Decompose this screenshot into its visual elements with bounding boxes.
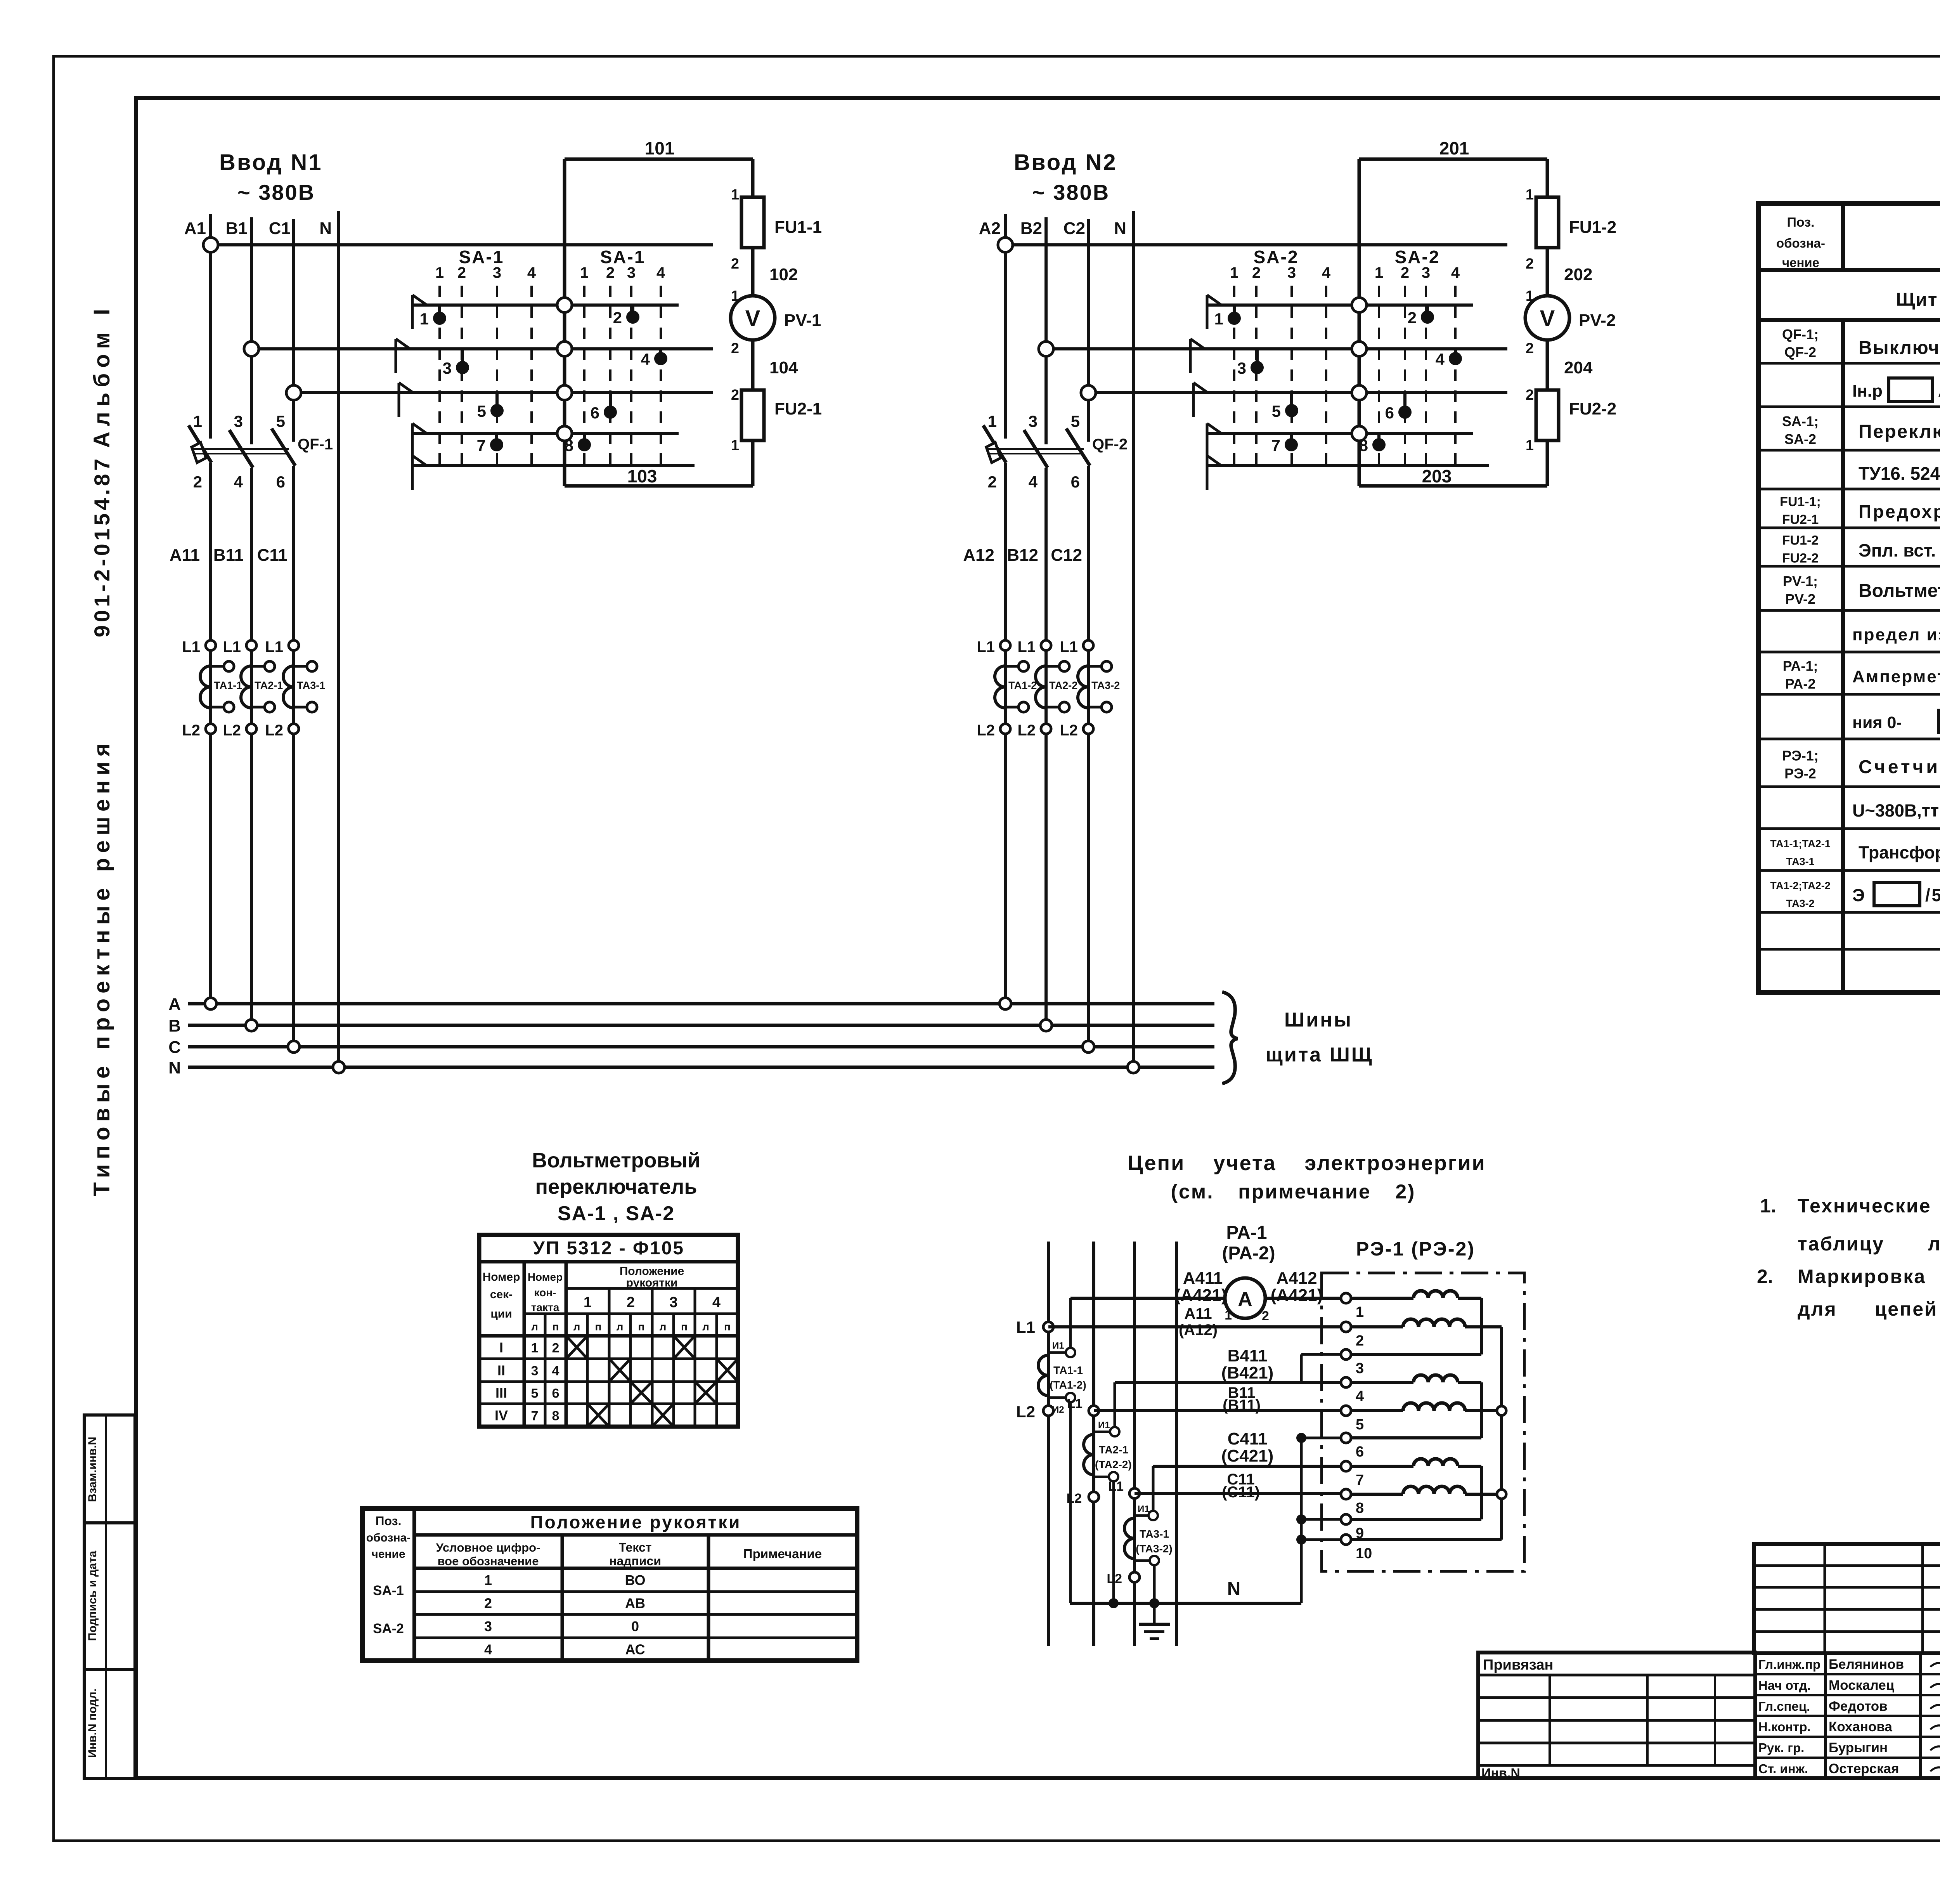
svg-text:4: 4 <box>1029 473 1038 491</box>
svg-text:4: 4 <box>1451 264 1460 281</box>
svg-text:Выключатель: Выключатель <box>1859 338 1940 358</box>
svg-text:Рук. гр.: Рук. гр. <box>1758 1741 1804 1755</box>
svg-text:2: 2 <box>552 1341 559 1356</box>
svg-text:Цепи учета электроэнергии: Цепи учета электроэнергии <box>1128 1151 1486 1175</box>
svg-text:L1: L1 <box>223 638 241 655</box>
svg-text:N: N <box>1114 219 1126 238</box>
svg-text:В411: В411 <box>1228 1346 1268 1365</box>
svg-text:3: 3 <box>1029 412 1038 430</box>
svg-text:И1: И1 <box>1098 1420 1110 1431</box>
svg-text:Положение: Положение <box>620 1265 684 1278</box>
svg-text:0: 0 <box>631 1618 639 1634</box>
svg-text:L2: L2 <box>1107 1571 1122 1586</box>
svg-text:щита ШЩ: щита ШЩ <box>1266 1044 1374 1066</box>
svg-text:сек-: сек- <box>490 1288 513 1301</box>
svg-text:ТА1-2: ТА1-2 <box>1008 680 1037 691</box>
svg-text:В: В <box>168 1016 181 1035</box>
svg-text:(ТА2-2): (ТА2-2) <box>1095 1458 1132 1470</box>
svg-text:FU2-1: FU2-1 <box>1782 512 1819 527</box>
svg-text:N: N <box>168 1058 181 1077</box>
svg-text:Счетчик СА4У-И672 м, кл. 2,: Счетчик СА4У-И672 м, кл. 2, <box>1859 757 1940 777</box>
svg-text:А11: А11 <box>170 546 200 565</box>
svg-text:таблицу лист ЭМ-2.: таблицу лист ЭМ-2. <box>1798 1233 1940 1255</box>
svg-text:202: 202 <box>1564 265 1592 284</box>
svg-text:Ст. инж.: Ст. инж. <box>1758 1762 1808 1776</box>
svg-text:В1: В1 <box>226 219 248 238</box>
svg-text:L1: L1 <box>1067 1396 1083 1411</box>
svg-text:предел измерения 0-500В;ТУ25: предел измерения 0-500В;ТУ25.04.3720-79 <box>1852 625 1940 644</box>
svg-text:С2: С2 <box>1064 219 1085 238</box>
svg-text:п: п <box>553 1321 559 1333</box>
svg-text:L2: L2 <box>1060 722 1078 739</box>
svg-text:3: 3 <box>484 1618 492 1634</box>
svg-text:II: II <box>497 1363 505 1379</box>
svg-text:3: 3 <box>1237 359 1246 377</box>
svg-text:2: 2 <box>1526 387 1534 403</box>
svg-text:6: 6 <box>1385 404 1394 422</box>
svg-text:SA-2: SA-2 <box>373 1621 404 1636</box>
svg-text:рукоятки: рукоятки <box>626 1276 678 1289</box>
svg-text:Трансформатор тока ТК-20-0.5: Трансформатор тока ТК-20-0.5 У3; <box>1859 843 1940 862</box>
svg-text:5: 5 <box>477 402 486 420</box>
svg-text:PV-1;: PV-1; <box>1783 573 1818 589</box>
svg-text:1: 1 <box>731 288 739 304</box>
svg-text:III: III <box>495 1385 507 1401</box>
svg-text:Инв.N подл.: Инв.N подл. <box>86 1689 99 1758</box>
svg-text:PV-2: PV-2 <box>1579 311 1616 330</box>
svg-text:4: 4 <box>1322 264 1331 281</box>
svg-text:Гл.инж.пр: Гл.инж.пр <box>1758 1657 1820 1672</box>
svg-text:Номер: Номер <box>528 1271 563 1283</box>
svg-text:4: 4 <box>484 1642 492 1658</box>
svg-text:А, Iуст.: А, Iуст. <box>1938 381 1940 401</box>
svg-text:1: 1 <box>1214 310 1223 328</box>
svg-text:В2: В2 <box>1020 219 1042 238</box>
svg-text:(ТА3-2): (ТА3-2) <box>1136 1543 1173 1555</box>
svg-text:Поз.: Поз. <box>376 1514 402 1528</box>
svg-text:SA-1: SA-1 <box>600 247 646 267</box>
svg-text:6: 6 <box>1356 1444 1364 1460</box>
svg-text:1.: 1. <box>1760 1195 1776 1217</box>
svg-text:Технические данные электрообор: Технические данные электрооборудования с… <box>1798 1195 1940 1217</box>
svg-text:~ 380В: ~ 380В <box>1032 180 1110 205</box>
svg-text:л: л <box>573 1321 580 1333</box>
svg-text:5: 5 <box>1356 1417 1364 1433</box>
svg-text:Амперметр Э 365 кл.1,5; предел: Амперметр Э 365 кл.1,5; предел измере- <box>1852 667 1940 686</box>
svg-text:Инв.N: Инв.N <box>1481 1766 1520 1781</box>
svg-text:L1: L1 <box>1017 638 1036 655</box>
svg-text:L2: L2 <box>265 722 283 739</box>
svg-text:ции: ции <box>490 1307 512 1320</box>
svg-text:L2: L2 <box>182 722 200 739</box>
svg-text:QF-2: QF-2 <box>1092 436 1128 453</box>
svg-text:FU2-1: FU2-1 <box>774 399 822 418</box>
svg-text:С1: С1 <box>269 219 291 238</box>
svg-text:Вольтметровый: Вольтметровый <box>532 1149 700 1172</box>
svg-text:7: 7 <box>1271 436 1280 454</box>
svg-text:АВ: АВ <box>625 1595 645 1611</box>
svg-text:А1: А1 <box>184 219 206 238</box>
svg-text:надписи: надписи <box>609 1554 661 1568</box>
svg-text:N: N <box>1227 1579 1241 1599</box>
svg-text:л: л <box>702 1321 709 1333</box>
svg-text:~ 380В: ~ 380В <box>237 180 315 205</box>
svg-text:4: 4 <box>1356 1388 1364 1405</box>
svg-text:В11: В11 <box>213 546 244 565</box>
svg-text:ВО: ВО <box>625 1572 645 1588</box>
svg-text:901-2-0154.87: 901-2-0154.87 <box>90 456 114 637</box>
svg-text:С: С <box>168 1038 181 1057</box>
svg-text:Н.контр.: Н.контр. <box>1758 1720 1811 1734</box>
svg-text:(С421): (С421) <box>1221 1446 1274 1465</box>
svg-text:104: 104 <box>769 358 798 377</box>
svg-text:Белянинов: Белянинов <box>1829 1657 1904 1672</box>
svg-text:4: 4 <box>552 1364 559 1379</box>
svg-text:п: п <box>595 1321 602 1333</box>
svg-text:1: 1 <box>1230 264 1238 281</box>
svg-text:А11: А11 <box>1184 1305 1212 1322</box>
svg-text:(В421): (В421) <box>1221 1363 1274 1382</box>
svg-text:5: 5 <box>276 412 285 430</box>
svg-text:А: А <box>168 995 181 1014</box>
svg-text:8: 8 <box>565 436 573 454</box>
svg-text:7: 7 <box>1356 1472 1364 1488</box>
svg-text:Маркировка аппаратов в скобках: Маркировка аппаратов в скобках приведена <box>1798 1266 1940 1287</box>
svg-text:Переключатель УП 5312 - Ф 105: Переключатель УП 5312 - Ф 105У3, <box>1859 421 1940 442</box>
svg-text:1: 1 <box>435 264 444 281</box>
svg-text:РЭ-1;: РЭ-1; <box>1782 748 1819 764</box>
svg-text:4: 4 <box>1436 350 1445 368</box>
svg-text:И1: И1 <box>1052 1340 1064 1351</box>
svg-text:SA-2: SA-2 <box>1784 431 1816 447</box>
svg-text:С12: С12 <box>1051 546 1082 565</box>
svg-text:л: л <box>660 1321 667 1333</box>
svg-text:РЭ-2: РЭ-2 <box>1784 766 1816 782</box>
svg-text:ТА3-1: ТА3-1 <box>1786 856 1814 867</box>
svg-text:1: 1 <box>1526 437 1534 454</box>
svg-text:2.: 2. <box>1757 1266 1773 1287</box>
svg-text:Примечание: Примечание <box>743 1547 822 1561</box>
svg-text:Типовые проектные решения: Типовые проектные решения <box>89 738 114 1196</box>
svg-text:SA-1;: SA-1; <box>1782 413 1819 429</box>
svg-text:7: 7 <box>477 436 486 454</box>
svg-text:переключатель: переключатель <box>535 1175 697 1198</box>
svg-text:10: 10 <box>1356 1545 1372 1562</box>
svg-text:(РА-2): (РА-2) <box>1222 1243 1275 1264</box>
svg-text:Эпл. вст. 16А, ТУ16.522.112 -: Эпл. вст. 16А, ТУ16.522.112 - 74 <box>1859 540 1940 560</box>
svg-text:обозна-: обозна- <box>1776 236 1825 250</box>
svg-text:1: 1 <box>1526 288 1534 304</box>
svg-text:2: 2 <box>627 1294 635 1311</box>
svg-text:АС: АС <box>625 1642 645 1658</box>
svg-text:8: 8 <box>1359 436 1368 454</box>
svg-text:7: 7 <box>531 1409 539 1424</box>
svg-text:обозна-: обозна- <box>366 1531 411 1544</box>
svg-text:1: 1 <box>731 437 739 454</box>
svg-text:QF-1: QF-1 <box>298 436 333 453</box>
svg-text:вое обозначение: вое обозначение <box>438 1554 539 1568</box>
svg-text:2: 2 <box>1408 309 1417 327</box>
svg-text:И2: И2 <box>1052 1405 1064 1415</box>
svg-text:4: 4 <box>527 264 536 281</box>
svg-text:(см. примечание 2): (см. примечание 2) <box>1171 1181 1416 1203</box>
svg-text:204: 204 <box>1564 358 1593 377</box>
svg-text:(ТА1-2): (ТА1-2) <box>1050 1379 1086 1391</box>
svg-text:РА-2: РА-2 <box>1785 676 1816 692</box>
svg-text:6: 6 <box>552 1386 559 1401</box>
svg-text:Положение рукоятки: Положение рукоятки <box>530 1512 741 1532</box>
svg-text:Привязан: Привязан <box>1483 1657 1553 1673</box>
svg-text:ТА1-1: ТА1-1 <box>214 680 242 691</box>
svg-text:L2: L2 <box>1066 1491 1082 1506</box>
svg-text:1: 1 <box>193 412 202 430</box>
svg-text:L2: L2 <box>223 722 241 739</box>
svg-text:ТА3-2: ТА3-2 <box>1786 898 1814 909</box>
svg-text:С11: С11 <box>257 546 288 565</box>
svg-text:С411: С411 <box>1228 1429 1268 1448</box>
svg-text:И1: И1 <box>1138 1504 1150 1514</box>
svg-text:3: 3 <box>234 412 243 430</box>
svg-text:3: 3 <box>669 1294 677 1311</box>
svg-text:FU1-1;: FU1-1; <box>1780 494 1821 509</box>
svg-text:6: 6 <box>1071 473 1080 491</box>
svg-text:/5А; ТУ16.517.442-80.: /5А; ТУ16.517.442-80. <box>1925 885 1940 905</box>
svg-text:L2: L2 <box>977 722 995 739</box>
svg-text:2: 2 <box>988 473 997 491</box>
svg-text:1: 1 <box>531 1341 539 1356</box>
svg-text:Взам.инв.N: Взам.инв.N <box>86 1437 99 1502</box>
svg-text:Нач отд.: Нач отд. <box>1758 1678 1811 1692</box>
svg-text:102: 102 <box>769 265 798 284</box>
svg-text:п: п <box>681 1321 688 1333</box>
svg-text:1: 1 <box>1526 187 1534 203</box>
svg-text:2: 2 <box>484 1595 492 1611</box>
svg-text:3: 3 <box>443 359 452 377</box>
svg-text:ТА1-2;ТА2-2: ТА1-2;ТА2-2 <box>1770 880 1831 891</box>
svg-text:Остерская: Остерская <box>1829 1761 1899 1776</box>
svg-text:2: 2 <box>193 473 202 491</box>
svg-text:FU1-2: FU1-2 <box>1569 218 1616 237</box>
svg-text:L1: L1 <box>1108 1479 1124 1494</box>
svg-text:1: 1 <box>1356 1304 1364 1320</box>
svg-text:ТУ16. 524. 074 - 75: ТУ16. 524. 074 - 75 <box>1859 463 1940 484</box>
svg-text:103: 103 <box>627 466 657 486</box>
svg-text:ТА3-1: ТА3-1 <box>1140 1528 1169 1540</box>
svg-text:Бурыгин: Бурыгин <box>1829 1740 1888 1755</box>
svg-text:2: 2 <box>1356 1333 1364 1349</box>
svg-text:такта: такта <box>531 1301 559 1313</box>
svg-text:QF-1;: QF-1; <box>1782 326 1819 342</box>
svg-text:5: 5 <box>1272 402 1281 420</box>
svg-text:L1: L1 <box>265 638 283 655</box>
svg-text:п: п <box>724 1321 731 1333</box>
svg-text:1: 1 <box>584 1294 592 1311</box>
svg-text:2: 2 <box>613 309 622 327</box>
svg-text:101: 101 <box>645 138 675 158</box>
svg-text:(В11): (В11) <box>1223 1397 1261 1414</box>
svg-text:3: 3 <box>531 1364 539 1379</box>
svg-text:SA-2: SA-2 <box>1395 247 1440 267</box>
svg-text:FU1-2: FU1-2 <box>1782 533 1819 548</box>
svg-text:1: 1 <box>1225 1308 1232 1323</box>
svg-text:ТА2-2: ТА2-2 <box>1049 680 1077 691</box>
svg-text:Альбом I: Альбом I <box>89 303 114 448</box>
svg-text:PV-1: PV-1 <box>784 311 821 330</box>
svg-text:Предохранитель ПРС - 25 У3 -: Предохранитель ПРС - 25 У3 - П, <box>1859 501 1940 522</box>
svg-text:4: 4 <box>712 1294 721 1311</box>
svg-text:Iн.р: Iн.р <box>1852 381 1883 401</box>
svg-text:SA-1: SA-1 <box>459 247 504 267</box>
svg-text:8: 8 <box>552 1409 559 1424</box>
svg-text:Э: Э <box>1852 885 1865 905</box>
svg-text:1: 1 <box>988 412 997 430</box>
svg-text:4: 4 <box>656 264 665 281</box>
svg-text:Условное цифро-: Условное цифро- <box>436 1541 540 1554</box>
svg-text:А: А <box>1238 1288 1252 1311</box>
svg-text:203: 203 <box>1422 466 1452 486</box>
svg-text:(С11): (С11) <box>1222 1484 1260 1501</box>
svg-text:Номер: Номер <box>483 1271 520 1283</box>
svg-text:2: 2 <box>731 387 739 403</box>
svg-text:ния 0-: ния 0- <box>1852 713 1902 732</box>
svg-text:Ввод N2: Ввод N2 <box>1014 150 1117 175</box>
svg-text:U~380В,тт: U~380В,тт <box>1852 801 1939 820</box>
svg-text:SA-2: SA-2 <box>1254 247 1299 267</box>
svg-text:IV: IV <box>495 1408 508 1424</box>
svg-text:Шины: Шины <box>1284 1009 1353 1031</box>
svg-text:2: 2 <box>1526 340 1534 357</box>
svg-text:Коханова: Коханова <box>1829 1719 1892 1734</box>
svg-text:8: 8 <box>1356 1500 1364 1516</box>
svg-text:1: 1 <box>484 1572 492 1588</box>
svg-text:чение: чение <box>371 1548 405 1561</box>
svg-text:I: I <box>499 1340 503 1356</box>
svg-text:РА-1;: РА-1; <box>1783 658 1818 674</box>
svg-text:(А421): (А421) <box>1175 1286 1227 1305</box>
svg-text:FU2-2: FU2-2 <box>1782 551 1819 566</box>
svg-text:V: V <box>1540 306 1555 331</box>
svg-text:1: 1 <box>731 187 739 203</box>
svg-text:А412: А412 <box>1276 1269 1317 1288</box>
svg-text:Подпись и дата: Подпись и дата <box>86 1550 99 1641</box>
svg-text:PV-2: PV-2 <box>1785 591 1815 607</box>
svg-text:L1: L1 <box>977 638 995 655</box>
svg-text:6: 6 <box>276 473 285 491</box>
svg-text:А12: А12 <box>963 546 994 565</box>
svg-text:РЭ-1 (РЭ-2): РЭ-1 (РЭ-2) <box>1356 1238 1475 1260</box>
svg-text:РА-1: РА-1 <box>1226 1223 1267 1243</box>
svg-text:ТА1-1;ТА2-1: ТА1-1;ТА2-1 <box>1770 838 1831 850</box>
svg-text:ТА3-1: ТА3-1 <box>297 680 325 691</box>
svg-text:N: N <box>319 219 332 238</box>
svg-text:ТА2-1: ТА2-1 <box>255 680 283 691</box>
svg-text:2: 2 <box>731 256 739 272</box>
svg-text:6: 6 <box>591 404 599 422</box>
svg-text:л: л <box>617 1321 624 1333</box>
svg-text:1: 1 <box>1375 264 1383 281</box>
svg-text:Поз.: Поз. <box>1787 215 1814 230</box>
svg-text:Москалец: Москалец <box>1829 1678 1895 1693</box>
svg-text:4: 4 <box>641 350 650 368</box>
svg-text:L2: L2 <box>1016 1403 1035 1421</box>
svg-text:3: 3 <box>1356 1360 1364 1377</box>
svg-text:L1: L1 <box>1060 638 1078 655</box>
svg-text:п: п <box>638 1321 645 1333</box>
svg-text:чение: чение <box>1782 255 1819 270</box>
svg-text:V: V <box>745 306 760 331</box>
svg-text:2: 2 <box>1262 1309 1269 1323</box>
svg-text:4: 4 <box>234 473 243 491</box>
svg-text:(А421): (А421) <box>1271 1286 1323 1305</box>
svg-text:5: 5 <box>531 1386 539 1401</box>
svg-text:QF-2: QF-2 <box>1784 344 1816 360</box>
svg-text:1: 1 <box>580 264 589 281</box>
svg-text:ТА2-1: ТА2-1 <box>1099 1444 1128 1456</box>
svg-text:ТА1-1: ТА1-1 <box>1053 1364 1083 1376</box>
svg-text:L1: L1 <box>182 638 200 655</box>
svg-text:Гл.спец.: Гл.спец. <box>1758 1699 1810 1713</box>
svg-text:Ввод N1: Ввод N1 <box>219 150 323 175</box>
svg-text:В12: В12 <box>1007 546 1038 565</box>
svg-text:SA-1 , SA-2: SA-1 , SA-2 <box>558 1202 675 1225</box>
svg-text:SA-1: SA-1 <box>373 1583 404 1598</box>
svg-text:1: 1 <box>420 310 429 328</box>
svg-text:кон-: кон- <box>534 1287 556 1299</box>
svg-text:FU1-1: FU1-1 <box>774 218 822 237</box>
svg-text:2: 2 <box>731 340 739 357</box>
svg-text:УП 5312 - Ф105: УП 5312 - Ф105 <box>533 1238 684 1259</box>
svg-text:А2: А2 <box>979 219 1001 238</box>
svg-text:А411: А411 <box>1183 1269 1223 1288</box>
svg-text:Федотов: Федотов <box>1829 1699 1888 1714</box>
svg-text:L1: L1 <box>1016 1318 1035 1336</box>
svg-text:5: 5 <box>1071 412 1080 430</box>
svg-text:для цепей учета электроэнергии: для цепей учета электроэнергии ввода 2. <box>1798 1298 1940 1320</box>
svg-text:Вольтметр Э365 , кл. 1,5 ;: Вольтметр Э365 , кл. 1,5 ; <box>1859 581 1940 601</box>
svg-text:201: 201 <box>1439 138 1469 158</box>
svg-text:ТА3-2: ТА3-2 <box>1091 680 1120 691</box>
svg-text:Текст: Текст <box>619 1540 652 1554</box>
svg-text:Щит управления ШЩ. Шкаф 1: Щит управления ШЩ. Шкаф 1 <box>1896 290 1940 310</box>
svg-text:л: л <box>531 1321 538 1333</box>
svg-text:2: 2 <box>1526 256 1534 272</box>
svg-text:FU2-2: FU2-2 <box>1569 399 1616 418</box>
svg-text:L2: L2 <box>1017 722 1036 739</box>
svg-text:(А12): (А12) <box>1179 1321 1218 1339</box>
